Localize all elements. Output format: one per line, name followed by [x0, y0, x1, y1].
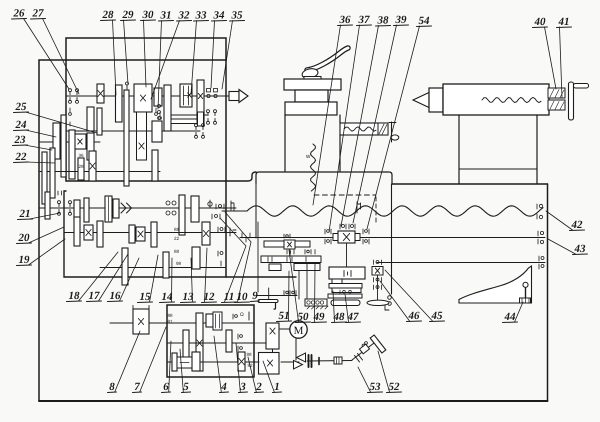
gear 29 on shaft I [116, 85, 123, 122]
tailstock body [443, 84, 549, 115]
feed rod line [240, 237, 333, 239]
svg-text:16: 16 [110, 290, 122, 302]
inclined shaft [352, 343, 374, 360]
apron pinion bar [264, 241, 310, 247]
gear on shaft A [74, 200, 80, 220]
halfnut mark on leadscrew [357, 202, 361, 213]
svg-text:41: 41 [558, 16, 570, 28]
tall gear strip [124, 90, 129, 186]
gear 32 on shaft I [164, 85, 171, 131]
apron vertical link 2 [298, 271, 300, 300]
left cluster gear 24 [53, 123, 60, 159]
shaft A feed reverse [39, 207, 236, 209]
svg-text:88: 88 [168, 313, 174, 318]
svg-text:50: 50 [298, 311, 310, 323]
inclined shaft ticks [355, 354, 363, 363]
gear on shaft A right [191, 196, 199, 222]
apron vertical link [306, 263, 308, 299]
svg-text:24: 24 [15, 119, 28, 131]
svg-text:53: 53 [370, 381, 382, 393]
gear 28 on shaft I [97, 84, 104, 103]
shaft Q extension [254, 342, 266, 344]
feed rod worm box [333, 234, 338, 241]
svg-text:21: 21 [19, 208, 31, 220]
gear on shaft A [84, 198, 89, 222]
motor shaft [280, 328, 290, 330]
leadscrew right bearing [537, 204, 543, 219]
gear X on shaft B [84, 225, 93, 240]
svg-text:88: 88 [174, 249, 180, 254]
clutch on shaft P [213, 312, 222, 330]
feed box shaft R [167, 361, 254, 363]
svg-text:5: 5 [183, 381, 189, 393]
tall sliding gear [196, 313, 203, 371]
lever knob [301, 67, 319, 79]
tall gear on shaft A right [179, 195, 185, 235]
tall gear X at shaft Q [197, 340, 202, 346]
apron link bar1 to rack [289, 249, 291, 256]
apron rack bar [261, 256, 321, 263]
shaft III [40, 141, 100, 143]
coupling block [334, 357, 342, 364]
leadscrew wavy line [222, 210, 247, 212]
gear on shaft IV [152, 150, 158, 181]
gear with X on shaft IV [89, 151, 96, 181]
motor gear connecting shaft [272, 349, 274, 353]
svg-text:36: 36 [79, 153, 85, 158]
gear on shaft P [206, 314, 213, 327]
svg-text:51: 51 [279, 310, 290, 322]
feed box shaft P [110, 322, 254, 324]
stacked bearing circles [158, 105, 161, 126]
apron step block [332, 279, 342, 285]
tall gear on shaft C [122, 248, 128, 285]
shaft A mid bearings [166, 201, 176, 215]
gear on shaft Q [226, 330, 232, 352]
svg-text:18: 18 [69, 290, 81, 302]
svg-text:43: 43 [574, 243, 587, 255]
bearing marks 35 [207, 113, 209, 116]
carriage apron left edge [255, 184, 257, 238]
svg-text:8: 8 [109, 381, 115, 393]
shaft B end ticks [230, 228, 236, 236]
apron feed vertical shaft [346, 243, 348, 267]
svg-text:52: 52 [389, 381, 401, 393]
shaft C feed reverse [100, 267, 225, 269]
dead center cone [413, 93, 429, 108]
machine outer frame left border [38, 60, 40, 401]
svg-text:81: 81 [168, 319, 174, 324]
svg-text:28: 28 [102, 9, 115, 21]
input shaft I [66, 95, 230, 97]
speed gearbox housing box [66, 38, 226, 277]
machine outer frame right border [547, 184, 549, 401]
shaft II [58, 130, 200, 132]
gear on shaft B [97, 221, 103, 247]
apron dial box [305, 299, 327, 306]
worm box bearing marks [340, 224, 355, 229]
svg-text:22: 22 [15, 151, 28, 163]
gear on shaft II [87, 107, 94, 131]
svg-text:27: 27 [32, 8, 45, 20]
coupling sleeve below shaft I [171, 119, 197, 124]
svg-text:1: 1 [274, 381, 280, 393]
feed box shaft Q [167, 342, 254, 344]
svg-text:7: 7 [134, 381, 140, 393]
feed gearbox housing box [167, 305, 254, 377]
double clutch gear 33 [180, 84, 192, 107]
svg-text:28: 28 [79, 164, 85, 169]
svg-text:35: 35 [231, 10, 244, 22]
left cluster gear [61, 115, 66, 177]
svg-text:42: 42 [571, 219, 584, 231]
apron handwheel stem [377, 275, 379, 301]
apron lower plate [328, 294, 362, 298]
gear on shaft R [172, 353, 177, 371]
svg-text:34: 34 [213, 10, 226, 22]
apron handwheel disc [367, 300, 389, 305]
left cluster gear [69, 130, 75, 179]
leadscrew left bearing cluster [208, 200, 224, 219]
svg-text:17: 17 [89, 290, 101, 302]
gear on shaft I right [197, 80, 204, 124]
tumbler arrows [121, 203, 132, 213]
svg-text:23: 23 [14, 134, 27, 146]
switch rod line [377, 262, 545, 264]
tailstock handwheel crank [569, 82, 574, 120]
gear X on shaft R right [238, 352, 245, 371]
bearing nut marks 34 [207, 89, 218, 98]
gear on shaft B [129, 225, 135, 243]
gear on shaft A left [45, 192, 50, 219]
apron handle bar [331, 300, 360, 306]
svg-text:37: 37 [358, 14, 371, 26]
motor drive gear lower [259, 353, 280, 375]
diagonal shaft dots [362, 344, 365, 347]
shaft R extension [254, 361, 259, 363]
tower lower plate [285, 102, 337, 115]
shaft A bearings [58, 204, 60, 207]
svg-text:44: 44 [504, 311, 517, 323]
lever knob pedestal [304, 77, 321, 81]
gear on shaft II [97, 108, 102, 135]
copy drive shaft [307, 360, 352, 363]
gear on shaft C [163, 252, 169, 278]
coupling bars [309, 355, 312, 367]
tower middle block [295, 90, 328, 102]
outer frame top line [39, 59, 226, 61]
left bottom gear [50, 148, 55, 198]
shaft II right bearings [195, 127, 197, 130]
machine outer frame bottom border [39, 400, 548, 402]
apron bar lower [269, 264, 281, 271]
input arrow from motor [229, 92, 239, 101]
bed top line [392, 183, 548, 185]
gear on shaft B [74, 217, 80, 246]
shaft IV [40, 171, 160, 173]
leadscrew handwheel stem [257, 222, 259, 292]
svg-text:20: 20 [18, 232, 31, 244]
svg-text:29: 29 [122, 9, 135, 21]
tailstock pedestal [458, 115, 460, 184]
gear X on shaft B right [202, 222, 210, 245]
gear with marks [87, 133, 94, 160]
svg-text:Ω: Ω [240, 312, 244, 318]
bearing mark [126, 85, 128, 89]
svg-text:38: 38 [377, 15, 390, 27]
sleeve block [198, 112, 204, 126]
svg-text:88: 88 [247, 352, 253, 357]
svg-text:33: 33 [195, 10, 208, 22]
electric motor M [290, 321, 307, 338]
gear sleeve below gear 30 [137, 112, 147, 160]
shaft I left bearings [69, 92, 71, 95]
cross slide lever handle [307, 48, 348, 70]
svg-text:36: 36 [339, 14, 352, 26]
svg-text:M: M [294, 325, 304, 337]
svg-text:26: 26 [13, 8, 26, 20]
feed reverse gear housing box [64, 191, 296, 277]
left bottom gear 22 [42, 152, 47, 204]
feed rod right bearing [538, 231, 544, 244]
dashed selector line [314, 194, 376, 196]
tailstock quill nose block [429, 88, 443, 112]
bevel gear pair [297, 353, 306, 362]
apron slide line [256, 295, 297, 297]
gear 23 [78, 158, 84, 180]
vertical wavy screw in tower [310, 144, 315, 191]
svg-text:30: 30 [142, 9, 155, 21]
bevel vertical shaft [295, 338, 297, 360]
gear on shaft Q [183, 330, 189, 357]
svg-text:9: 9 [252, 290, 258, 302]
gear X on shaft B [136, 227, 145, 241]
svg-text:25: 25 [15, 101, 28, 113]
apron plate [329, 284, 362, 289]
clutch bar on shaft R [177, 357, 192, 368]
svg-text:w: w [305, 154, 311, 160]
leadscrew drive gear [133, 309, 149, 334]
svg-text:88: 88 [174, 227, 180, 232]
apron worm X box [372, 267, 383, 276]
svg-text:31: 31 [160, 10, 172, 22]
tower column sides [284, 115, 286, 171]
reverse clutch X box [74, 134, 86, 149]
clutch box on shaft II [152, 121, 162, 142]
wedge ramp 44 [459, 266, 532, 303]
gear on shaft R [192, 352, 200, 371]
svg-text:40: 40 [534, 16, 547, 28]
gear on shaft C [192, 247, 200, 269]
speed gearbox housing bottom [66, 172, 256, 181]
inclined paddle [370, 335, 386, 353]
halfnut tick marks [231, 201, 234, 211]
leadscrew handwheel disc [258, 300, 278, 303]
svg-text:11: 11 [224, 291, 234, 303]
carriage saddle outline [256, 172, 392, 184]
gear on shaft A [113, 199, 119, 218]
large gear 30 on shaft I [134, 84, 152, 112]
wedge clamp figure [525, 288, 527, 298]
svg-text:19: 19 [19, 254, 31, 266]
cross feed crank [391, 122, 393, 142]
svg-text:98: 98 [176, 261, 182, 266]
apron right edge [391, 184, 393, 294]
cross feed nut hatched [378, 123, 388, 135]
cross feed screw box [340, 123, 388, 135]
svg-text:32: 32 [178, 10, 191, 22]
gear 31 on shaft I [154, 88, 162, 106]
svg-text:22: 22 [174, 236, 180, 241]
apron central box [329, 267, 365, 279]
svg-text:54: 54 [419, 15, 431, 27]
wide gear on shaft A [105, 196, 112, 222]
tower top plate [284, 79, 341, 90]
svg-text:45: 45 [431, 310, 444, 322]
gear on shaft B [151, 222, 157, 247]
tailstock nut block lower hatched [548, 100, 565, 110]
motor drive gear upper [266, 323, 279, 349]
svg-text:39: 39 [395, 14, 408, 26]
tailstock screw wavy [482, 97, 541, 102]
apron lower blocks [332, 288, 361, 293]
shaft B feed reverse [64, 232, 236, 234]
output stub shaft [171, 114, 207, 116]
tailstock nut block upper hatched [548, 88, 565, 98]
